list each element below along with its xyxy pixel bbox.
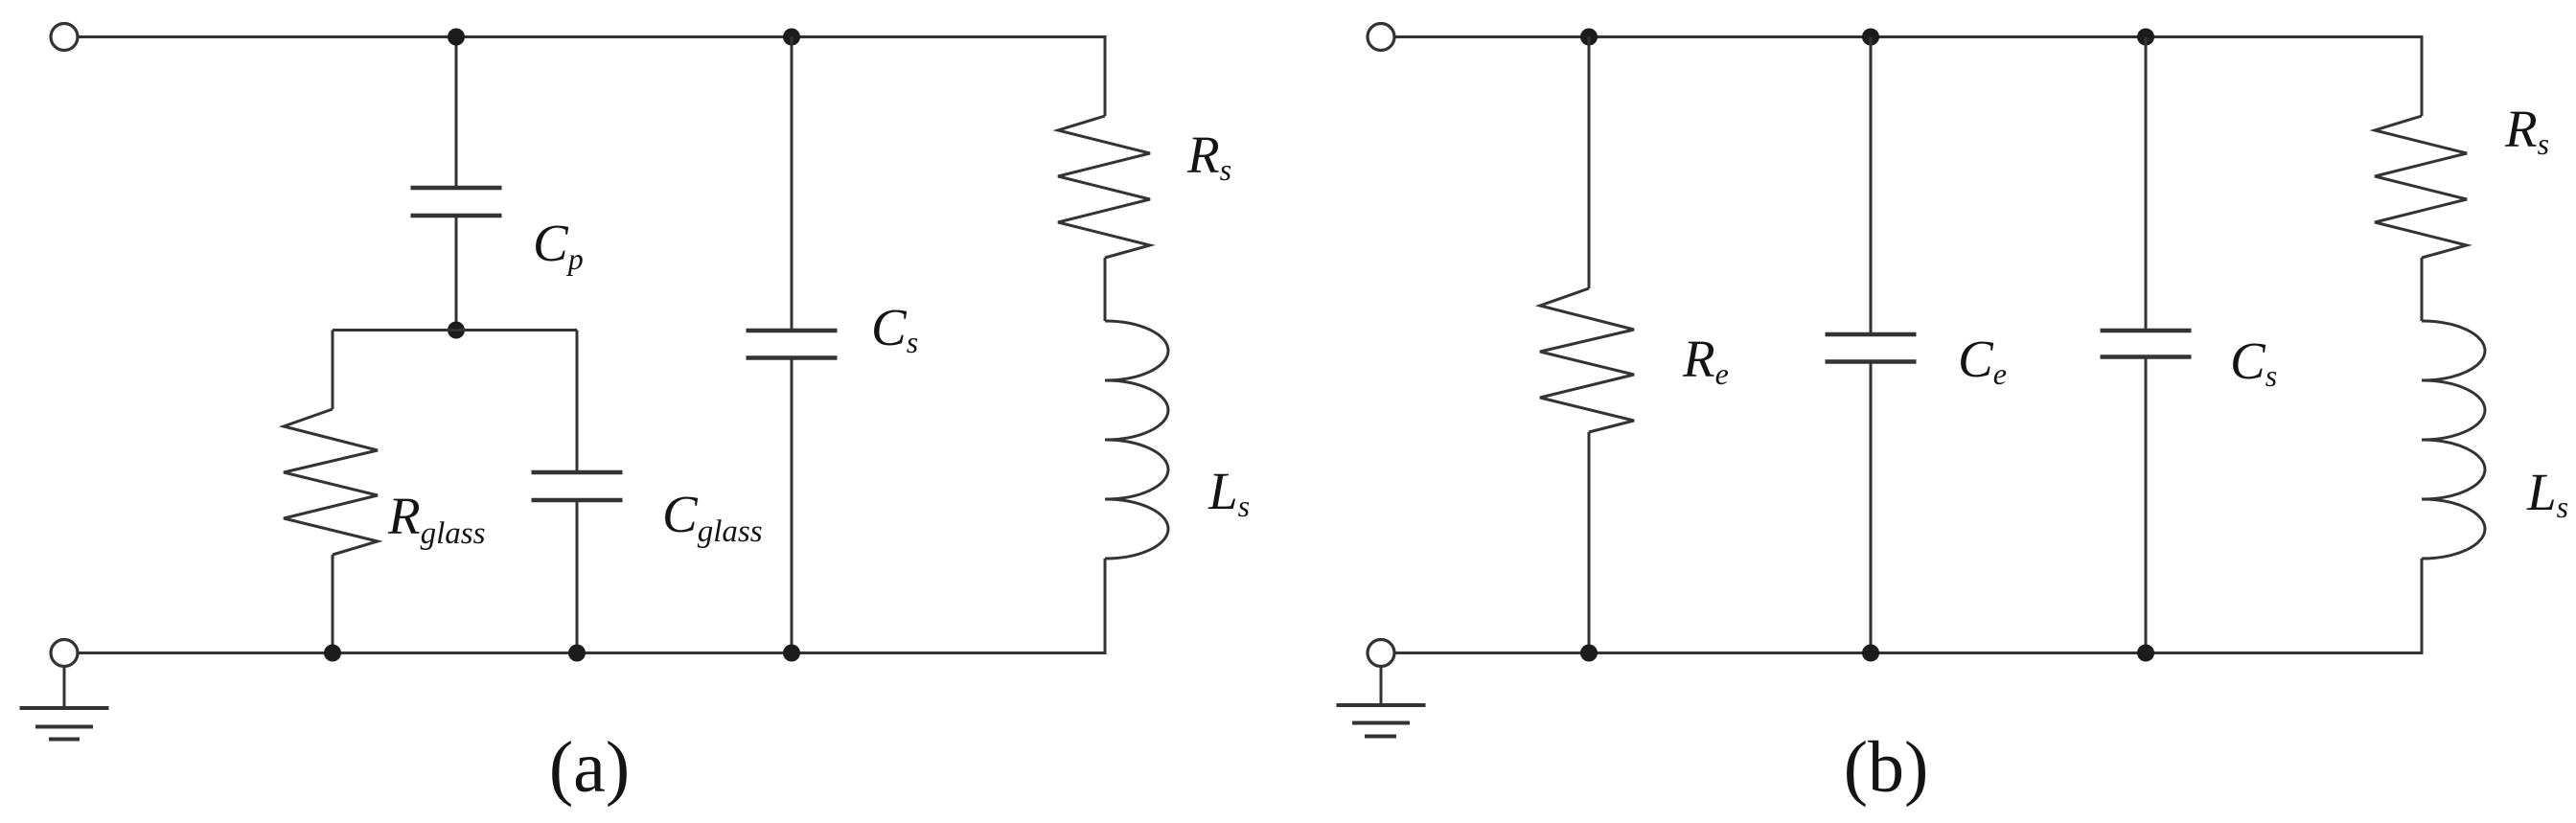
capacitor Cs of circuit (b)	[2101, 331, 2192, 357]
wire Ce upper lead	[1870, 37, 1873, 335]
svg-text:Rglass: Rglass	[387, 487, 485, 551]
wire right branch upper lead (a)	[1104, 35, 1107, 116]
label Ls (b)	[2526, 463, 2568, 524]
svg-text:Cglass: Cglass	[662, 485, 763, 549]
junction dot (a) top at Cs branch	[783, 29, 800, 46]
capacitor Cp	[411, 188, 502, 216]
junction dot (a) bottom at Rglass branch	[324, 645, 341, 662]
label Rs (b)	[2504, 100, 2549, 161]
svg-text:(b): (b)	[1844, 727, 1929, 808]
inductor Ls (b)	[2422, 321, 2485, 559]
svg-text:Ce: Ce	[1958, 330, 2007, 391]
wire glass-pair top rail	[333, 329, 577, 331]
resistor Rs (a)	[1058, 116, 1150, 258]
wire Cp upper lead	[455, 37, 458, 189]
junction dot (b) bottom at Re branch	[1580, 645, 1598, 662]
svg-text:Cs: Cs	[2230, 331, 2277, 393]
junction dot (b) bottom at Ce branch	[1862, 645, 1879, 662]
wire Ls lower lead (b)	[2421, 559, 2424, 653]
wire bottom bus (b)	[1394, 652, 2424, 654]
wire Cglass upper lead	[576, 331, 579, 473]
label Cs (a)	[871, 298, 918, 359]
junction dot (a) bottom at Cs branch	[783, 645, 800, 662]
label Re	[1682, 330, 1729, 391]
junction dot (b) top at Ce branch	[1862, 29, 1879, 46]
resistor Rs (b)	[2375, 116, 2467, 258]
label Ce	[1958, 330, 2007, 391]
resistor Rglass	[284, 409, 378, 555]
label Cglass	[662, 485, 763, 549]
wire Rs to Ls link (a)	[1104, 258, 1107, 321]
capacitor Cs of circuit (a)	[747, 331, 838, 358]
wire bottom bus (a)	[78, 652, 1107, 654]
svg-text:Re: Re	[1682, 330, 1729, 391]
label Rs (a)	[1186, 126, 1231, 187]
wire Ls lower lead (a)	[1104, 559, 1107, 653]
wire Cs upper lead (a)	[791, 37, 793, 331]
wire Cs lower lead (b)	[2145, 357, 2148, 653]
resistor Re	[1540, 288, 1634, 432]
label Cp	[533, 214, 584, 276]
terminal T1 input of circuit (a)	[51, 24, 78, 51]
capacitor Ce	[1826, 334, 1917, 362]
wire Re lower lead	[1588, 432, 1591, 653]
label (a)	[549, 727, 630, 808]
junction dot (a) top at Cp branch	[448, 29, 465, 46]
ground symbol (b)	[1337, 667, 1426, 737]
junction dot (b) bottom at Cs branch	[2137, 645, 2154, 662]
wire Rglass upper lead	[332, 331, 334, 410]
wire Rs to Ls link (b)	[2421, 258, 2424, 321]
junction dot (b) top at Cs branch	[2137, 29, 2154, 46]
svg-text:Rs: Rs	[2504, 100, 2549, 161]
wire Re upper lead	[1588, 37, 1591, 289]
svg-text:Cs: Cs	[871, 298, 918, 359]
wire Cs upper lead (b)	[2145, 37, 2148, 331]
terminal T1 input of circuit (b)	[1368, 24, 1394, 51]
node dot A: Cp to glass parallel pair	[448, 322, 465, 339]
wire Cs lower lead (a)	[791, 358, 793, 653]
junction dot (a) bottom at Cglass branch	[568, 645, 586, 662]
junction dot (b) top at Re branch	[1580, 29, 1598, 46]
terminal T2 ground side of circuit (a)	[51, 640, 78, 667]
wire Cp lower lead	[455, 216, 458, 331]
wire top bus (b)	[1394, 35, 2424, 38]
wire right branch upper lead (b)	[2421, 35, 2424, 116]
wire Cglass lower lead	[576, 500, 579, 653]
label (b)	[1844, 727, 1929, 808]
wire top bus (a)	[78, 35, 1107, 38]
svg-text:(a): (a)	[549, 727, 630, 808]
ground symbol (a)	[20, 667, 109, 740]
label Cs (b)	[2230, 331, 2277, 393]
svg-text:Ls: Ls	[1207, 462, 1250, 523]
svg-text:Rs: Rs	[1186, 126, 1231, 187]
svg-text:Cp: Cp	[533, 214, 584, 276]
wire Rglass lower lead	[332, 555, 334, 653]
label Ls (a)	[1207, 462, 1250, 523]
label Rglass	[387, 487, 485, 551]
capacitor Cglass	[532, 472, 623, 500]
wire Ce lower lead	[1870, 362, 1873, 653]
svg-text:Ls: Ls	[2526, 463, 2568, 524]
inductor Ls (a)	[1105, 321, 1168, 559]
terminal T2 ground side of circuit (b)	[1368, 640, 1394, 667]
